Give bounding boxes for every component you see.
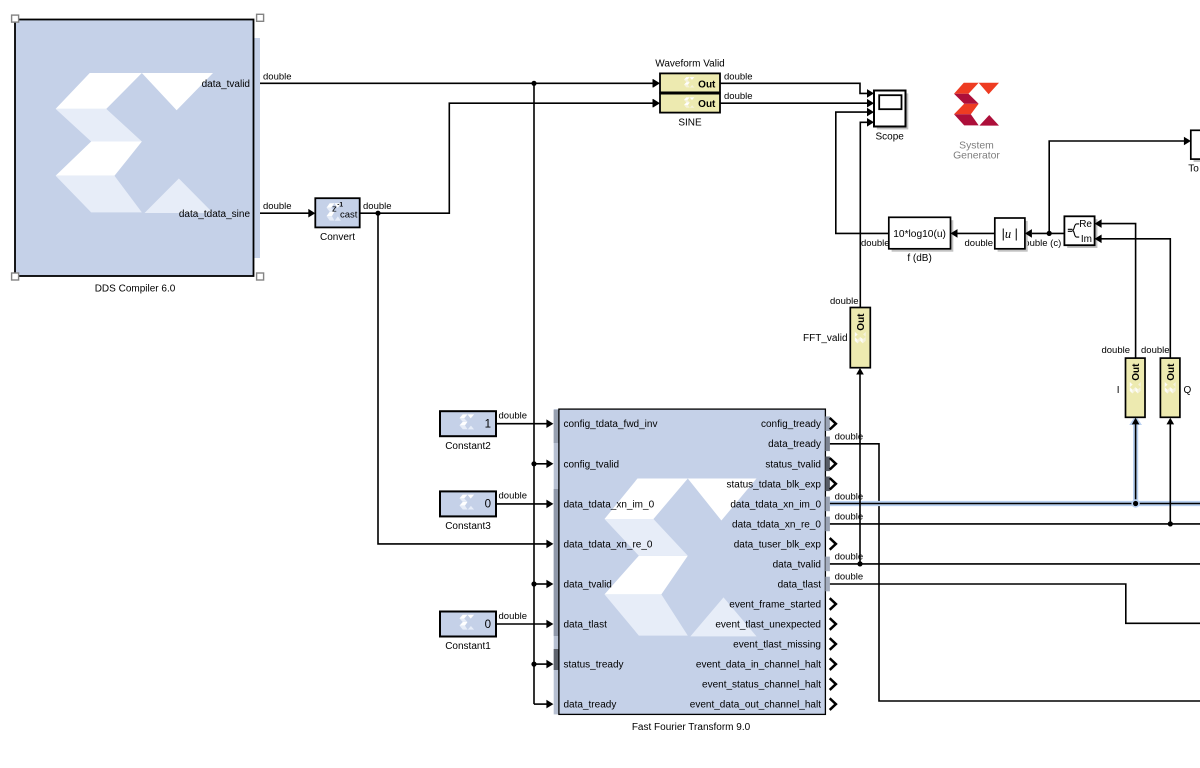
wire u-abs output to 10*log10(u) xyxy=(958,232,995,234)
block Convert cast xyxy=(315,198,359,227)
svg-text:data_tdata_xn_im_0: data_tdata_xn_im_0 xyxy=(730,499,821,510)
wire FFT data_tdata_xn_re_0 output xyxy=(830,418,1200,524)
junction at config_tvalid branch xyxy=(531,461,536,466)
FFT output port nubs xyxy=(825,416,830,591)
junction on xn_re_0 wire to gateway Q xyxy=(1168,521,1173,526)
block Gateway Out SINE xyxy=(653,94,720,113)
block abs |u| xyxy=(995,218,1032,252)
svg-text:Scope: Scope xyxy=(876,132,905,143)
block Gateway Out Waveform Valid xyxy=(653,73,720,92)
svg-text:data_tuser_blk_exp: data_tuser_blk_exp xyxy=(734,539,822,550)
svg-text:data_tvalid: data_tvalid xyxy=(202,79,250,90)
svg-text:event_tlast_missing: event_tlast_missing xyxy=(733,640,821,651)
svg-text:double: double xyxy=(965,238,994,249)
block To Workspace partially visible xyxy=(1191,130,1200,162)
svg-text:double: double xyxy=(263,201,292,212)
selection handle top-right of DDS xyxy=(257,14,264,21)
svg-text:event_tlast_unexpected: event_tlast_unexpected xyxy=(715,620,821,631)
wire Waveform Valid gateway to Scope input 1 xyxy=(720,83,867,93)
wire gateway Q to Im input xyxy=(1101,239,1170,358)
block Constant3 xyxy=(440,491,496,516)
svg-text:event_status_channel_halt: event_status_channel_halt xyxy=(702,680,821,691)
svg-text:double: double xyxy=(1101,345,1130,356)
svg-text:I: I xyxy=(1117,385,1120,396)
svg-text:double: double xyxy=(263,71,292,82)
wire complex signal from Re-Im block to u-abs and To Workspace xyxy=(1032,137,1191,234)
FFT output port labels xyxy=(690,419,822,710)
svg-text:data_tready: data_tready xyxy=(768,439,821,450)
svg-text:double: double xyxy=(499,491,528,502)
wire 10*log10(u) output to Scope input 3 xyxy=(836,112,889,233)
wire Convert output to SINE lower gateway and FFT xn_re_0 xyxy=(360,99,660,548)
svg-text:Out: Out xyxy=(698,79,716,90)
svg-text:10*log10(u): 10*log10(u) xyxy=(893,229,946,240)
label System Generator xyxy=(953,141,1000,162)
svg-text:double: double xyxy=(835,431,864,442)
svg-text:event_frame_started: event_frame_started xyxy=(729,599,821,610)
wire gateway I to Re input xyxy=(1101,224,1135,359)
svg-text:status_tready: status_tready xyxy=(564,660,624,671)
svg-text:Constant1: Constant1 xyxy=(445,641,491,652)
junction at status_tready branch xyxy=(531,662,536,667)
svg-text:DDS Compiler 6.0: DDS Compiler 6.0 xyxy=(95,284,176,295)
svg-text:double: double xyxy=(499,611,528,622)
svg-text:status_tdata_blk_exp: status_tdata_blk_exp xyxy=(726,479,821,490)
wire FFT data_tdata_xn_im_0 output selected blue xyxy=(830,416,1200,504)
FFT input port labels xyxy=(564,419,658,710)
selection handle top-left of DDS xyxy=(12,15,19,22)
svg-text:data_tvalid: data_tvalid xyxy=(564,579,612,590)
svg-text:To: To xyxy=(1188,164,1199,175)
svg-text:data_tdata_xn_re_0: data_tdata_xn_re_0 xyxy=(732,519,821,530)
block Constant1 xyxy=(440,612,496,637)
FFT unconnected output chevrons xyxy=(830,418,836,710)
svg-text:double: double xyxy=(363,201,392,212)
svg-text:0: 0 xyxy=(485,619,491,631)
svg-text:double: double xyxy=(835,491,864,502)
block Gateway Out Q xyxy=(1160,358,1180,417)
svg-text:1: 1 xyxy=(485,419,491,431)
svg-text:|u |: |u | xyxy=(1002,227,1018,241)
svg-text:double: double xyxy=(724,91,753,102)
svg-text:double: double xyxy=(861,238,890,249)
svg-text:double: double xyxy=(835,571,864,582)
svg-text:-1: -1 xyxy=(337,201,343,208)
wire data_tdata_sine from DDS to Convert xyxy=(260,209,315,218)
svg-text:0: 0 xyxy=(485,499,491,511)
junction on complex wire xyxy=(1047,231,1052,236)
wire Constant3 to FFT input xyxy=(496,500,553,509)
svg-text:Out: Out xyxy=(1131,363,1142,381)
svg-text:Im: Im xyxy=(1081,234,1092,245)
svg-text:double: double xyxy=(835,511,864,522)
wire FFT data_tvalid output to FFT_valid gateway xyxy=(830,368,1200,564)
svg-text:Waveform Valid: Waveform Valid xyxy=(655,59,724,70)
svg-text:config_tvalid: config_tvalid xyxy=(564,459,620,470)
svg-text:f (dB): f (dB) xyxy=(907,253,931,264)
svg-text:double: double xyxy=(835,551,864,562)
svg-text:data_tvalid: data_tvalid xyxy=(773,559,821,570)
svg-text:FFT_valid: FFT_valid xyxy=(803,333,847,344)
svg-text:data_tready: data_tready xyxy=(564,700,617,711)
selection handle bottom-left of DDS xyxy=(12,273,19,280)
svg-text:double: double xyxy=(499,411,528,422)
svg-text:config_tready: config_tready xyxy=(761,419,821,430)
svg-text:data_tdata_xn_re_0: data_tdata_xn_re_0 xyxy=(564,539,653,550)
svg-text:Out: Out xyxy=(1166,363,1177,381)
svg-text:config_tdata_fwd_inv: config_tdata_fwd_inv xyxy=(564,419,658,430)
svg-text:data_tdata_xn_im_0: data_tdata_xn_im_0 xyxy=(564,499,655,510)
svg-text:Convert: Convert xyxy=(320,232,355,243)
block Real-Imag to Complex xyxy=(1064,216,1101,248)
wire SINE gateway to Scope input 2 xyxy=(720,102,867,104)
selection handle bottom-right of DDS xyxy=(257,273,264,280)
svg-text:data_tdata_sine: data_tdata_sine xyxy=(179,209,251,220)
block Fast Fourier Transform 9.0 xyxy=(554,409,826,714)
svg-text:status_tvalid: status_tvalid xyxy=(765,459,821,470)
block System Generator token xyxy=(954,83,999,126)
wire FFT_valid gateway to Scope input 4 xyxy=(860,122,867,307)
svg-text:Constant2: Constant2 xyxy=(445,441,491,452)
junction at Convert output xyxy=(375,211,380,216)
block Gateway Out I xyxy=(1126,358,1146,417)
svg-text:Out: Out xyxy=(698,99,716,110)
junction at data_tvalid FFT branch xyxy=(531,581,536,586)
svg-text:SINE: SINE xyxy=(678,117,702,128)
svg-text:Constant3: Constant3 xyxy=(445,521,491,532)
block Scope xyxy=(874,91,908,130)
svg-text:event_data_in_channel_halt: event_data_in_channel_halt xyxy=(696,660,821,671)
svg-text:Out: Out xyxy=(856,313,867,331)
svg-text:cast: cast xyxy=(340,210,358,221)
svg-text:Generator: Generator xyxy=(953,150,1000,161)
svg-text:Q: Q xyxy=(1184,385,1192,396)
junction on data_tvalid wire at SINE branch xyxy=(531,81,536,86)
svg-text:double: double xyxy=(1141,345,1170,356)
block DDS Compiler 6.0 xyxy=(15,20,260,277)
svg-text:Fast Fourier Transform 9.0: Fast Fourier Transform 9.0 xyxy=(632,722,751,733)
wire FFT data_tlast output xyxy=(830,584,1200,623)
block 10*log10(u) f (dB) xyxy=(889,217,958,251)
svg-text:double: double xyxy=(830,296,859,307)
svg-text:data_tlast: data_tlast xyxy=(778,579,822,590)
svg-text:Re: Re xyxy=(1079,219,1092,230)
block Constant2 xyxy=(440,411,496,436)
junction on xn_im_0 wire to gateway I xyxy=(1131,499,1139,507)
svg-text:event_data_out_channel_halt: event_data_out_channel_halt xyxy=(690,700,821,711)
wire data_tvalid from DDS to SINE gateway and down to FFT xyxy=(260,79,660,708)
block Gateway Out FFT_valid xyxy=(850,308,870,368)
wire FFT data_tready output xyxy=(830,444,1200,701)
wire Constant1 to FFT input xyxy=(496,620,553,629)
wire Constant2 to FFT input xyxy=(496,419,553,428)
svg-text:double: double xyxy=(724,71,753,82)
junction on data_tvalid output wire xyxy=(857,561,862,566)
svg-text:data_tlast: data_tlast xyxy=(564,620,608,631)
